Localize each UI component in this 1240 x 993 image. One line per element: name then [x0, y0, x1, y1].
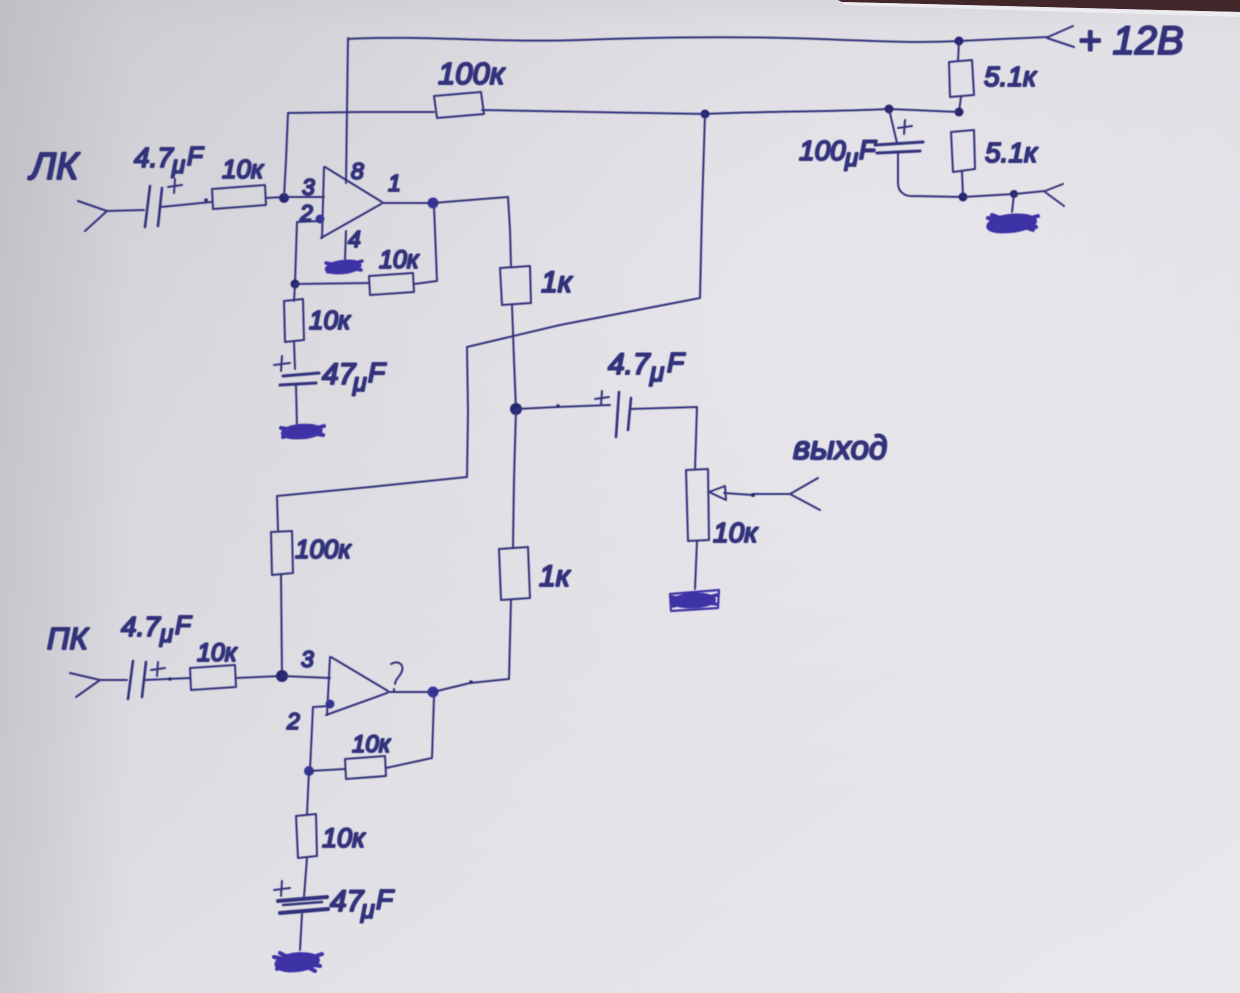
wire C1 to R3	[161, 202, 211, 207]
svg-text:F: F	[368, 357, 387, 388]
wire 100uF bottom lead	[898, 152, 963, 197]
wire C6 to ground	[300, 914, 302, 950]
input arrow +12V	[1047, 26, 1074, 47]
svg-text:10к: 10к	[352, 731, 392, 758]
wire pin2 R down	[310, 706, 330, 770]
resistor R5 10k feedback L	[369, 273, 414, 295]
wire pin4 to ground	[345, 231, 346, 259]
wire R3 to pin3 node	[266, 197, 284, 198]
wire R2 to bottom rail	[962, 172, 963, 196]
capacitor C6 47uF plus	[274, 881, 290, 896]
wire rail junction down and diagonal to lower channel	[277, 114, 705, 530]
input arrow PK	[70, 673, 127, 697]
svg-text:2: 2	[286, 708, 300, 734]
resistor R6 10k shunt L	[284, 299, 304, 342]
svg-text:100к: 100к	[438, 56, 506, 91]
svg-text:F: F	[376, 884, 395, 915]
capacitor C2 47uF plates	[280, 373, 319, 385]
node output L	[428, 198, 439, 209]
svg-text:10к: 10к	[322, 823, 366, 853]
svg-text:ПК: ПК	[47, 621, 89, 656]
svg-text:100: 100	[799, 135, 846, 166]
wire feedback node down to R12	[307, 771, 309, 814]
node bottom rail	[959, 193, 968, 202]
svg-text:выход: выход	[793, 429, 887, 466]
wire C4 to R10	[145, 678, 190, 680]
wire 100k top left vertical	[284, 113, 288, 197]
svg-text:10к: 10к	[713, 517, 759, 548]
wire wiper to output arrow	[753, 493, 790, 495]
svg-text:5.1к: 5.1к	[985, 137, 1039, 168]
wire 100k to node PK	[281, 575, 282, 675]
svg-text:47: 47	[322, 358, 357, 391]
capacitor C3 4.7uF plus	[595, 391, 609, 405]
svg-text:10к: 10к	[309, 305, 352, 335]
ground right scribble	[988, 215, 1038, 232]
resistor R10 10k input R	[190, 665, 236, 690]
node top rail junction	[955, 37, 964, 46]
resistor R8 1k lower	[499, 547, 530, 600]
svg-text:1к: 1к	[541, 266, 574, 299]
resistor R2 5.1k	[951, 130, 975, 172]
node output R	[428, 687, 439, 698]
potentiometer wiper arrow	[724, 493, 753, 495]
wire pin8 to top rail	[346, 38, 348, 183]
capacitor C4 plus	[151, 662, 165, 676]
svg-text:4.7: 4.7	[608, 348, 651, 381]
wire N1 down to R8	[513, 409, 516, 547]
wire R5 up to output node	[414, 206, 437, 284]
tick on input R wire	[168, 677, 172, 681]
wire 100k top rail left segment	[288, 112, 434, 113]
svg-text:10к: 10к	[222, 154, 265, 184]
svg-text:μ: μ	[159, 621, 173, 648]
wire R11 up to output node R	[386, 697, 434, 768]
wire output L down to R7	[508, 197, 511, 266]
wire N1 to C3	[516, 405, 610, 409]
op-amp U2 triangle	[326, 657, 388, 715]
svg-text:μ: μ	[360, 896, 375, 924]
capacitor C5 plus	[898, 120, 912, 134]
wire +12V top rail	[348, 37, 1047, 42]
svg-text:μ: μ	[171, 152, 185, 179]
svg-text:1к: 1к	[539, 560, 572, 593]
node feedback R	[304, 766, 314, 776]
wire R1 to mid node	[959, 97, 961, 112]
svg-text:F: F	[859, 135, 877, 165]
resistor R11 10k feedback R	[345, 756, 386, 779]
wire R10 to node N2	[236, 676, 282, 678]
capacitor C4 4.7uF plates	[128, 661, 146, 699]
potentiometer RP1 10k body	[686, 469, 709, 541]
capacitor C3 plates	[616, 392, 631, 437]
node N1 mix	[510, 403, 522, 415]
ground op-amp1 scribble	[326, 261, 362, 273]
resistor R9 100k lower channel	[271, 531, 293, 575]
wire R7 to node N1	[512, 305, 516, 409]
svg-text:10к: 10к	[379, 246, 420, 274]
op-amp U1 triangle	[321, 167, 382, 238]
wire pin3 to op-amp	[284, 196, 324, 198]
resistor R12 10k shunt R	[296, 814, 317, 858]
resistor R1 5.1k	[949, 60, 974, 97]
wire R8 down to output R	[509, 600, 511, 679]
svg-text:10к: 10к	[197, 639, 238, 667]
arrow output vykhod	[790, 478, 820, 510]
ground C2 scribble	[281, 425, 324, 438]
capacitor C1 plus	[168, 179, 182, 193]
node pin2 R	[326, 700, 335, 709]
node pin2	[316, 215, 325, 224]
node mid rail left	[701, 110, 710, 119]
svg-text:μ: μ	[649, 357, 664, 387]
svg-text:4.7: 4.7	[134, 142, 174, 173]
resistor R4 100k top	[434, 92, 484, 118]
wire pot to ground	[695, 541, 697, 589]
capacitor C5 100uF plates	[875, 142, 923, 153]
wire op-amp2 output	[388, 679, 509, 692]
wire node to R5	[295, 283, 369, 284]
svg-text:47: 47	[330, 885, 365, 918]
wire ref to ground	[1012, 194, 1014, 212]
label pin mark squiggle	[391, 662, 402, 691]
node N2 pin3 R	[276, 670, 288, 682]
svg-text:F: F	[667, 347, 686, 378]
node ref output	[1010, 190, 1018, 198]
svg-text:5.1к: 5.1к	[984, 61, 1038, 92]
wire R12 to C6	[304, 858, 307, 897]
wire pin2 down to feedback node	[295, 221, 320, 284]
svg-text:8: 8	[351, 158, 364, 184]
svg-text:ЛК: ЛК	[27, 146, 81, 188]
svg-text:4: 4	[348, 226, 361, 252]
wire mid rail	[705, 109, 959, 114]
node pin3 L	[279, 193, 289, 203]
resistor R3 10k input L	[212, 185, 266, 209]
node feedback L	[291, 280, 300, 289]
arrow ref output	[1014, 184, 1064, 206]
svg-text:3: 3	[301, 646, 314, 672]
capacitor C2 47uF plus	[274, 356, 290, 371]
capacitor C6 plates	[278, 897, 328, 913]
tick on wire	[556, 404, 560, 408]
wire C3 to pot	[630, 407, 697, 469]
svg-text:+ 12В: + 12В	[1078, 19, 1184, 63]
resistor R7 1k upper	[500, 266, 531, 305]
node mid divider	[955, 108, 964, 117]
svg-text:μ: μ	[844, 145, 858, 172]
node 100uF top	[885, 105, 894, 114]
svg-text:100к: 100к	[295, 534, 352, 564]
svg-text:1: 1	[388, 170, 401, 196]
ground pot box	[670, 590, 719, 611]
wire 100k top rail right segment	[482, 110, 705, 114]
tick on output R wire	[469, 680, 473, 684]
input arrow LK	[78, 201, 144, 231]
svg-text:F: F	[175, 610, 193, 640]
wire C2 to ground	[296, 386, 297, 427]
wire N2 to op-amp2	[282, 676, 330, 678]
capacitor C1 4.7uF plates	[145, 186, 162, 227]
svg-text:μ: μ	[352, 369, 367, 397]
wire 100uF top lead	[889, 109, 897, 143]
wire top rail to R1	[958, 41, 959, 61]
tick on wiper wire	[751, 493, 755, 497]
wire node to R6	[294, 284, 295, 369]
ground C6 scribble	[274, 953, 322, 971]
svg-text:F: F	[187, 141, 205, 171]
wire node to R11	[309, 769, 345, 771]
svg-text:4.7: 4.7	[121, 611, 161, 642]
wire bottom rail right	[963, 194, 1014, 197]
wire op-amp output	[382, 197, 508, 203]
tick mark	[204, 198, 208, 202]
